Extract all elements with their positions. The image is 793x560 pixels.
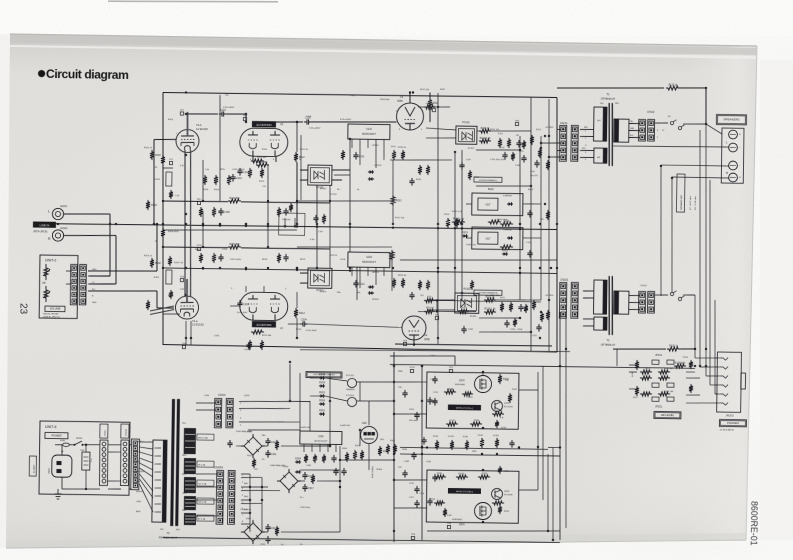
svg-text:E201: E201 [154, 277, 160, 279]
svg-text:R2: R2 [155, 241, 157, 243]
svg-text:(OUTSIDE SPEAKER-L): (OUTSIDE SPEAKER-L) [479, 179, 498, 182]
svg-text:C245: C245 [426, 461, 432, 463]
svg-text:U202: U202 [366, 256, 372, 259]
svg-text:R121: R121 [536, 129, 542, 131]
svg-text:R215: R215 [427, 296, 432, 298]
svg-text:V1-b: V1-b [196, 123, 202, 127]
svg-text:ZC402: ZC402 [496, 410, 503, 412]
svg-text:R104: R104 [151, 204, 157, 207]
svg-text:+B 450V: +B 450V [545, 295, 554, 297]
svg-text:D307: D307 [246, 518, 252, 520]
svg-text:Circuit diagram: Circuit diagram [46, 67, 129, 82]
svg-text:R105: R105 [203, 189, 209, 191]
svg-text:R212: R212 [299, 312, 305, 315]
svg-text:D103: D103 [319, 381, 325, 384]
svg-text:C214: C214 [430, 355, 436, 357]
svg-text:YEL: YEL [630, 121, 633, 123]
svg-text:JACK2: JACK2 [60, 227, 68, 230]
svg-text:0.39u: 0.39u [310, 239, 315, 241]
svg-text:300B: 300B [397, 100, 403, 103]
svg-text:-: - [739, 164, 740, 168]
svg-text:KTC3198: KTC3198 [504, 495, 513, 497]
svg-text:L-8808-A: L-8808-A [503, 229, 512, 232]
svg-text:C311: C311 [271, 453, 277, 456]
svg-text:C208: C208 [517, 329, 523, 331]
svg-text:R122: R122 [519, 151, 524, 153]
svg-text:D301: D301 [319, 409, 325, 412]
svg-text:GRN: GRN [182, 493, 187, 495]
svg-text:TP12: TP12 [196, 245, 202, 247]
svg-text:D304: D304 [295, 457, 301, 460]
svg-text:R129 560: R129 560 [675, 362, 686, 365]
svg-text:R111 10k: R111 10k [420, 89, 430, 91]
svg-text:50V 0.1A: 50V 0.1A [198, 501, 207, 504]
svg-text:U301: U301 [318, 436, 324, 438]
svg-text:D104: D104 [319, 373, 325, 376]
svg-text:PC101: PC101 [330, 194, 337, 196]
svg-text:LZ : 4-6.3 ohm: LZ : 4-6.3 ohm [690, 196, 692, 210]
svg-text:R321: R321 [355, 445, 361, 447]
svg-text:PC202: PC202 [463, 288, 471, 291]
svg-text:R215 2k: R215 2k [398, 275, 407, 277]
svg-text:D204: D204 [319, 399, 325, 402]
svg-text:8600RE-01: 8600RE-01 [749, 501, 760, 546]
svg-text:R213: R213 [444, 214, 450, 216]
svg-text:R214: R214 [504, 220, 510, 223]
svg-text:R211 56k: R211 56k [262, 335, 272, 337]
svg-text:CN202: CN202 [560, 278, 569, 282]
svg-text:R219 1.2k: R219 1.2k [485, 308, 497, 311]
svg-text:R214 1k: R214 1k [330, 255, 337, 257]
svg-text:GND: GND [92, 302, 97, 304]
svg-text:JACK3: JACK3 [726, 414, 734, 417]
svg-text:C210: C210 [510, 329, 516, 331]
svg-text:R110: R110 [262, 149, 268, 151]
svg-text:PRI: PRI [600, 103, 604, 105]
svg-text:R148: R148 [447, 388, 453, 391]
svg-text:PC102: PC102 [462, 121, 470, 124]
svg-text:GRY: GRY [136, 461, 141, 463]
svg-text:FUSE: FUSE [60, 440, 66, 442]
svg-text:8V 2.2A: 8V 2.2A [198, 464, 206, 467]
svg-text:C105: C105 [224, 211, 230, 214]
svg-text:6P5V 0.4A: 6P5V 0.4A [198, 437, 208, 440]
svg-text:SW303: SW303 [76, 438, 82, 440]
svg-text:C102: C102 [236, 177, 242, 180]
svg-text:+: + [739, 176, 741, 180]
svg-text:MICROSOFT: MICROSOFT [362, 262, 376, 264]
svg-text:CN302: CN302 [48, 468, 50, 474]
svg-text:Q102: Q102 [504, 403, 510, 405]
svg-text:R326: R326 [390, 440, 396, 442]
svg-text:0.22u 400V: 0.22u 400V [223, 107, 235, 109]
svg-text:MICROSOFT: MICROSOFT [314, 440, 328, 442]
svg-text:R204: R204 [168, 295, 174, 297]
svg-text:LIFTED: LIFTED [374, 165, 382, 167]
svg-text:VOLUME: VOLUME [50, 307, 61, 311]
svg-text:(OUTSIDE SPEAKER-R): (OUTSIDE SPEAKER-R) [479, 292, 498, 295]
svg-text:QP34: QP34 [244, 395, 250, 397]
svg-text:R136: R136 [474, 420, 480, 422]
svg-text:D101: D101 [462, 231, 468, 234]
svg-text:BLK: BLK [182, 474, 187, 476]
svg-text:CH102: CH102 [647, 111, 655, 114]
svg-text:0.05u 400V: 0.05u 400V [237, 312, 248, 314]
svg-text:C113: C113 [526, 242, 532, 244]
svg-text:MICROSOFT: MICROSOFT [362, 134, 376, 136]
svg-text:FL-: FL- [357, 189, 361, 191]
svg-text:R121 12k: R121 12k [490, 129, 500, 131]
svg-text:R127: R127 [645, 368, 651, 370]
svg-text:JP301: JP301 [376, 469, 383, 471]
svg-text:ECC83TWIN: ECC83TWIN [256, 323, 271, 327]
svg-text:PTC101: PTC101 [346, 375, 355, 377]
svg-text:WH/BLU: WH/BLU [136, 441, 145, 443]
svg-text:B101: B101 [488, 188, 494, 191]
svg-text:R125 1k: R125 1k [669, 84, 679, 87]
svg-text:Q202: Q202 [504, 491, 510, 493]
svg-text:R111 56k: R111 56k [257, 157, 267, 159]
svg-text:47u/400V: 47u/400V [282, 219, 291, 221]
svg-text:JACK1: JACK1 [60, 205, 68, 208]
svg-text:R112 10k: R112 10k [395, 217, 405, 219]
svg-text:C101: C101 [433, 392, 439, 394]
svg-text:R103: R103 [214, 189, 220, 191]
svg-text:400V: 400V [440, 89, 445, 91]
svg-text:R102 1k: R102 1k [144, 147, 153, 149]
svg-text:R207 56k: R207 56k [229, 243, 240, 246]
svg-text:EL801: EL801 [320, 188, 327, 190]
svg-text:EL817: EL817 [468, 148, 475, 150]
svg-text:CN306: CN306 [105, 430, 107, 436]
svg-text:R122: R122 [528, 189, 534, 191]
svg-text:EL801: EL801 [470, 316, 477, 318]
svg-text:OUT: OUT [485, 203, 491, 206]
svg-text:R216 56k: R216 56k [426, 307, 434, 309]
svg-text:ORN: ORN [136, 501, 141, 503]
svg-text:PTC201: PTC201 [346, 395, 355, 397]
svg-text:R202: R202 [155, 262, 161, 265]
svg-text:CN102: CN102 [640, 285, 648, 287]
svg-text:PRI: PRI [160, 529, 164, 531]
svg-text:6SPS2.47LCD(L-x): 6SPS2.47LCD(L-x) [456, 408, 473, 410]
svg-text:E101: E101 [155, 179, 161, 181]
svg-text:C203: C203 [214, 335, 220, 337]
svg-text:R101: R101 [168, 119, 174, 121]
svg-text:OPT8608-AT: OPT8608-AT [601, 343, 616, 346]
svg-text:R218 1k: R218 1k [460, 307, 467, 309]
svg-text:VR: VR [42, 281, 46, 285]
svg-text:UNIT-6: UNIT-6 [45, 425, 56, 429]
svg-text:L: L [48, 209, 50, 213]
svg-text:WH/VIO: WH/VIO [136, 491, 144, 493]
svg-text:FL-: FL- [300, 544, 303, 546]
svg-text:(RCA JACK): (RCA JACK) [33, 230, 47, 233]
svg-text:PHONES: PHONES [727, 421, 739, 425]
svg-text:R311: R311 [247, 455, 253, 457]
svg-text:R112: R112 [396, 200, 402, 203]
svg-text:VIO: VIO [136, 481, 140, 483]
svg-text:1/2 ECC83: 1/2 ECC83 [196, 128, 208, 131]
svg-text:R113: R113 [259, 181, 265, 183]
svg-text:C202: C202 [222, 249, 228, 251]
svg-text:500k A - RK268: 500k A - RK268 [43, 312, 59, 315]
svg-text:(6.4mmJACK): (6.4mmJACK) [720, 429, 734, 432]
svg-text:ZC301: ZC301 [493, 435, 500, 437]
svg-text:R226: R226 [437, 473, 443, 475]
svg-text:+B 450V: +B 450V [545, 127, 554, 129]
svg-text:4.7k: 4.7k [500, 417, 504, 419]
svg-text:6SPS2.47LCD(B-x): 6SPS2.47LCD(B-x) [456, 491, 474, 493]
svg-text:1W: 1W [516, 135, 519, 137]
svg-text:LED: LED [362, 422, 367, 425]
svg-text:23: 23 [17, 303, 28, 315]
svg-text:AC INLET: AC INLET [32, 464, 35, 473]
svg-text:OUT: OUT [485, 237, 491, 240]
svg-text:OPT8608-AT: OPT8608-AT [601, 97, 616, 100]
svg-text:C303: C303 [204, 395, 210, 397]
svg-text:SEC: SEC [176, 529, 181, 531]
svg-text:8V 2.4A: 8V 2.4A [198, 518, 206, 521]
svg-text:C202 1u/50V: C202 1u/50V [230, 259, 242, 261]
svg-text:C316 100u: C316 100u [300, 507, 311, 509]
svg-text:TP10: TP10 [409, 367, 415, 369]
svg-text:FR-: FR- [357, 292, 361, 294]
svg-text:ZC102: ZC102 [449, 420, 456, 422]
svg-text:12k: 12k [500, 309, 503, 311]
svg-text:C313: C313 [260, 544, 266, 546]
svg-text:SEC: SEC [615, 103, 620, 105]
svg-text:C217: C217 [409, 483, 415, 485]
svg-text:KTC3198: KTC3198 [504, 407, 513, 409]
svg-text:7mW1.5W: 7mW1.5W [340, 425, 350, 427]
svg-text:C204: C204 [301, 319, 307, 322]
svg-text:R140: R140 [402, 449, 408, 451]
svg-text:WH/GRY: WH/GRY [136, 471, 145, 473]
svg-text:1.6k: 1.6k [505, 380, 509, 382]
svg-text:11V 2.2A: 11V 2.2A [198, 483, 207, 486]
svg-text:T1: T1 [606, 92, 610, 96]
svg-text:Q201: Q201 [459, 524, 465, 526]
svg-text:R210: R210 [296, 329, 302, 331]
svg-text:GND: GND [472, 451, 477, 453]
svg-text:BLU: BLU [136, 451, 141, 453]
svg-text:RED: RED [244, 483, 249, 485]
svg-text:R113 100k: R113 100k [380, 99, 390, 101]
svg-text:D203: D203 [319, 391, 325, 394]
svg-text:KRF9S862: KRF9S862 [452, 519, 463, 521]
svg-text:EL801: EL801 [320, 291, 327, 293]
svg-text:D101 U15: D101 U15 [466, 244, 477, 246]
svg-text:BRN: BRN [136, 511, 141, 513]
svg-text:RED: RED [182, 455, 187, 457]
svg-text:C307: C307 [80, 450, 85, 452]
svg-text:(LED CONN): (LED CONN) [372, 466, 374, 478]
svg-text:C10: C10 [398, 387, 401, 389]
svg-text:U101: U101 [366, 128, 372, 131]
svg-text:C206: C206 [340, 259, 346, 261]
svg-text:R212: R212 [300, 259, 306, 261]
svg-text:R324: R324 [342, 448, 348, 450]
svg-text:C107: C107 [318, 231, 324, 233]
svg-text:UP201: UP201 [372, 272, 379, 274]
svg-text:ECC83TWIN: ECC83TWIN [256, 123, 271, 127]
svg-text:R203: R203 [195, 249, 201, 251]
svg-text:+: + [739, 133, 741, 137]
svg-text:HZ : 6-16 ohm: HZ : 6-16 ohm [695, 196, 697, 210]
svg-text:Q101: Q101 [459, 380, 465, 382]
svg-text:ZC201: ZC201 [448, 436, 455, 438]
svg-text:JP101: JP101 [655, 354, 663, 357]
svg-text:CN303B: CN303B [126, 428, 128, 436]
svg-text:POWER: POWER [51, 433, 61, 437]
svg-text:R204 2.2k: R204 2.2k [174, 262, 183, 264]
svg-text:R229 10R: R229 10R [664, 391, 674, 393]
svg-text:0.22u-400V: 0.22u-400V [309, 128, 321, 130]
svg-text:R119 1.2k: R119 1.2k [480, 137, 492, 140]
svg-text:SPEAKERS: SPEAKERS [723, 117, 739, 121]
svg-text:R114 56k: R114 56k [426, 103, 434, 105]
svg-text:-: - [739, 146, 740, 150]
svg-text:V1-a: V1-a [192, 319, 198, 323]
svg-text:LINE IN: LINE IN [40, 223, 50, 227]
svg-text:HP-LEVEL: HP-LEVEL [661, 413, 675, 417]
svg-text:R225 1k: R225 1k [669, 345, 679, 348]
svg-text:R228: R228 [482, 473, 488, 475]
svg-text:D102: D102 [502, 249, 508, 252]
svg-text:LED: LED [380, 439, 385, 441]
svg-text:RED: RED [244, 496, 249, 498]
svg-text:C116: C116 [409, 409, 415, 411]
svg-text:FR+: FR+ [337, 292, 342, 294]
svg-text:0.1u: 0.1u [91, 458, 93, 462]
svg-text:0.22u 400V: 0.22u 400V [306, 330, 317, 332]
svg-text:100u 400V: 100u 400V [409, 420, 419, 422]
svg-text:UP101: UP101 [372, 145, 379, 147]
svg-text:UP202: UP202 [372, 299, 379, 301]
svg-text:R213: R213 [262, 259, 268, 261]
svg-text:R202 1k: R202 1k [144, 255, 153, 257]
svg-text:CN303: CN303 [218, 394, 226, 397]
svg-text:CN-01: CN-01 [560, 121, 568, 125]
svg-text:FL-: FL- [262, 459, 265, 461]
svg-text:R112 1k: R112 1k [300, 149, 309, 151]
svg-text:SPEAKER IMP.: SPEAKER IMP. [680, 194, 683, 210]
svg-text:JP201: JP201 [655, 406, 663, 409]
svg-text:C305: C305 [306, 465, 312, 467]
svg-text:1/2 ECC83: 1/2 ECC83 [192, 323, 204, 326]
svg-text:CN305A: CN305A [214, 466, 223, 469]
svg-text:R149: R149 [468, 397, 473, 399]
svg-text:C106: C106 [306, 116, 312, 118]
svg-text:UM66016: UM66016 [346, 389, 356, 391]
svg-text:C110 100u 50V: C110 100u 50V [490, 159, 506, 161]
svg-text:R104 820k: R104 820k [168, 231, 180, 233]
svg-text:R116: R116 [416, 179, 422, 181]
svg-text:0.5W: 0.5W [447, 515, 452, 517]
svg-text:WR: WR [597, 157, 601, 159]
svg-text:KRF9S862: KRF9S862 [455, 384, 466, 386]
svg-text:R102: R102 [155, 154, 161, 157]
svg-text:GRN: GRN [630, 128, 635, 130]
svg-text:D305 RBA-406B: D305 RBA-406B [236, 430, 252, 433]
svg-text:C317: C317 [308, 487, 314, 490]
svg-text:0.5W: 0.5W [404, 461, 409, 463]
svg-text:GND: GND [398, 371, 403, 373]
svg-text:R213 1.2k: R213 1.2k [452, 211, 463, 213]
svg-text:R1: R1 [155, 167, 157, 169]
svg-text:R107 56k: R107 56k [229, 197, 240, 200]
svg-text:C104: C104 [243, 171, 249, 174]
svg-text:C20: C20 [398, 467, 401, 469]
svg-text:7mW1.5W: 7mW1.5W [300, 427, 310, 429]
svg-text:0.22u 400V: 0.22u 400V [340, 119, 352, 121]
svg-text:300B: 300B [424, 338, 430, 341]
svg-text:C102 1u/50V: C102 1u/50V [232, 169, 245, 171]
svg-text:R117 1k: R117 1k [481, 127, 491, 130]
svg-text:L-8808-A: L-8808-A [503, 194, 512, 197]
svg-text:ZC202: ZC202 [458, 473, 465, 475]
svg-text:C112: C112 [500, 147, 504, 149]
svg-text:C203: C203 [243, 303, 249, 306]
svg-text:100u 50V: 100u 50V [530, 175, 539, 177]
svg-text:WHT: WHT [182, 510, 187, 512]
svg-text:D306 RBA-406B: D306 RBA-406B [270, 464, 286, 467]
svg-text:(100k A - RK271): (100k A - RK271) [43, 315, 60, 318]
svg-text:R115 2k: R115 2k [398, 147, 407, 149]
svg-text:UNIT-2: UNIT-2 [45, 258, 56, 262]
